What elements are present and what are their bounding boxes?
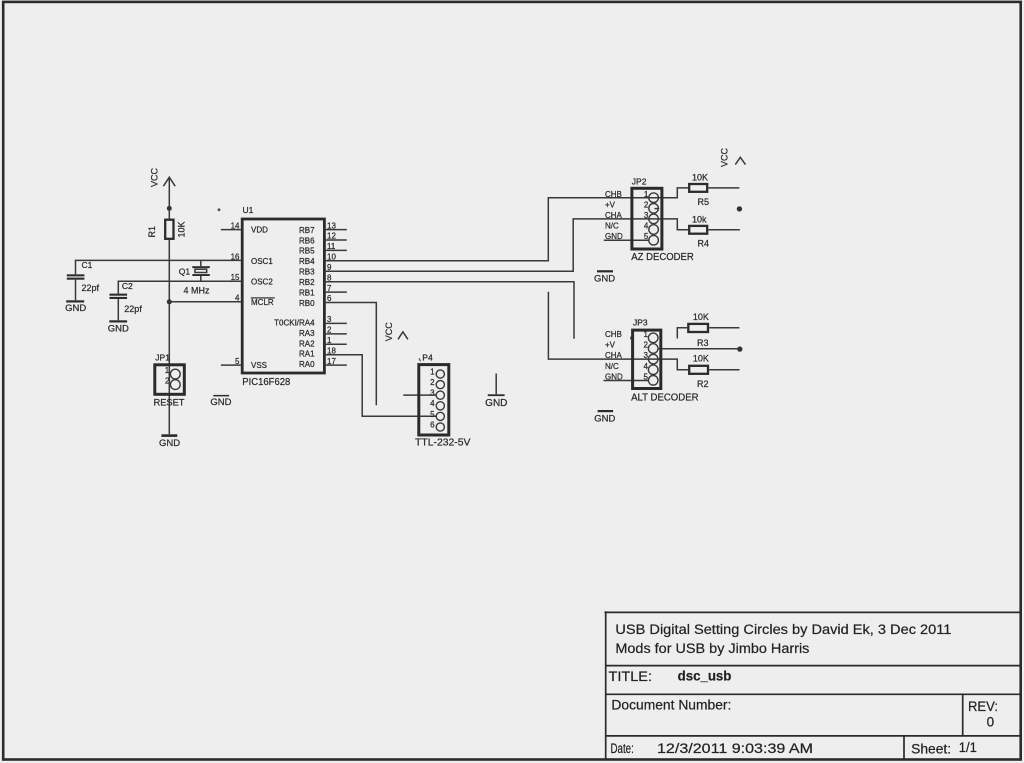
svg-text:6: 6: [430, 420, 435, 429]
svg-text:GND: GND: [210, 397, 231, 408]
junction dot +V ALT decoder: [737, 346, 742, 351]
JP3 pin 1 stub dot: [630, 337, 633, 340]
svg-text:GND: GND: [605, 372, 623, 381]
svg-text:4 MHz: 4 MHz: [184, 285, 211, 295]
JP2 pin circles: [649, 193, 659, 203]
svg-text:VCC: VCC: [150, 167, 160, 187]
svg-text:22pf: 22pf: [82, 283, 100, 293]
JP3 pin circles: [648, 333, 658, 343]
wire JP2 pin 5 GND: [604, 239, 649, 241]
ground symbol GND (C1): [65, 300, 86, 314]
power symbol VCC (top right): [720, 147, 746, 167]
svg-text:RA2: RA2: [299, 339, 315, 348]
svg-text:GND: GND: [605, 232, 623, 241]
wire RB0 (U1 pin 6) toward JP4 (dangling end): [324, 303, 376, 406]
U1 pin 5 VSS stub: [221, 364, 241, 366]
connector JP2 (AZ DECODER): [631, 176, 694, 263]
wire stub JP4 pin 3: [403, 394, 436, 396]
svg-text:VCC: VCC: [384, 322, 394, 342]
wire VCC to R1: [168, 179, 170, 219]
svg-text:1: 1: [430, 367, 435, 376]
svg-text:0: 0: [987, 714, 995, 729]
junction dot +V AZ decoder: [737, 206, 742, 211]
svg-text:10K: 10K: [693, 354, 709, 364]
svg-text:USB Digital Setting Circles by: USB Digital Setting Circles by David Ek,…: [615, 622, 951, 637]
svg-text:GND: GND: [594, 413, 615, 424]
svg-text:VDD: VDD: [251, 226, 268, 235]
svg-text:RB2: RB2: [299, 278, 315, 287]
svg-text:4: 4: [644, 362, 649, 371]
svg-text:GND: GND: [65, 303, 86, 314]
svg-text:10k: 10k: [692, 214, 707, 224]
MCLR overline: [251, 297, 275, 299]
svg-text:CHA: CHA: [605, 211, 623, 220]
svg-text:4: 4: [430, 399, 435, 408]
svg-text:1/1: 1/1: [959, 740, 977, 755]
svg-text:RB1: RB1: [299, 288, 315, 297]
svg-text:OSC1: OSC1: [251, 257, 273, 266]
svg-text:MCLR: MCLR: [251, 298, 274, 307]
capacitor C2: [110, 281, 143, 320]
svg-text:P4: P4: [422, 353, 433, 363]
capacitor C1: [67, 260, 100, 301]
svg-text:4: 4: [644, 222, 649, 231]
wire RA1 (U1 pin 18) to JP4 pin 5: [324, 355, 436, 417]
wire JP3 pin 5 GND: [604, 380, 649, 382]
U1 right pin numbers: [327, 221, 336, 365]
svg-text:R4: R4: [698, 238, 710, 248]
svg-text:Document Number:: Document Number:: [611, 698, 731, 713]
svg-text:CHA: CHA: [605, 351, 623, 360]
wire R1 to JP1 to GND (through MCLR node): [168, 240, 170, 434]
title block: [605, 611, 1021, 759]
svg-text:12: 12: [327, 232, 336, 241]
svg-text:1: 1: [644, 330, 649, 339]
JP2 pin numbers: [644, 190, 649, 241]
U1 right pin names: [274, 226, 315, 369]
svg-text:22pf: 22pf: [124, 304, 142, 314]
wire R3 right: [709, 327, 739, 329]
U1 right pin stubs: [324, 230, 346, 366]
svg-text:11: 11: [327, 242, 336, 251]
svg-text:TITLE:: TITLE:: [609, 669, 653, 684]
svg-text:10K: 10K: [177, 221, 187, 237]
svg-text:ALT DECODER: ALT DECODER: [631, 393, 699, 404]
ground symbol GND (C2): [108, 320, 129, 334]
svg-text:+V: +V: [605, 341, 616, 350]
ground symbol GND (VSS): [210, 395, 231, 408]
JP1 pin circles: [170, 369, 180, 379]
svg-text:14: 14: [231, 221, 240, 230]
wire JP3 pin 2 +V to junction: [658, 348, 740, 350]
svg-text:2: 2: [165, 376, 170, 385]
JP4 pin circles: [436, 370, 444, 378]
ground symbol GND (below JP3): [594, 410, 615, 424]
svg-text:5: 5: [430, 410, 435, 419]
resistor R3: [688, 312, 709, 348]
JP1 pin numbers: [165, 366, 170, 386]
wire CHA net to JP3 pin 3 and R2: [548, 292, 688, 370]
svg-text:2: 2: [327, 326, 332, 335]
svg-text:RA3: RA3: [299, 329, 315, 338]
crystal Q1: [179, 260, 210, 295]
svg-text:+V: +V: [605, 200, 616, 209]
svg-text:JP3: JP3: [633, 317, 648, 327]
svg-text:RA0: RA0: [299, 360, 315, 369]
svg-text:10K: 10K: [693, 312, 709, 322]
svg-text:R1: R1: [147, 226, 157, 238]
IC U1 PIC16F628: [242, 205, 324, 388]
U1 left pin numbers: [231, 221, 240, 365]
wire OSC2 net (C2 / Q1 / U1 pin 15): [118, 281, 241, 293]
power symbol VCC (near JP4): [384, 322, 408, 342]
junction dot VCC/R1 node: [167, 206, 172, 211]
JP2 net labels CHB +V CHA N/C GND: [605, 190, 623, 241]
svg-text:VSS: VSS: [251, 361, 267, 370]
svg-text:7: 7: [327, 284, 332, 293]
svg-text:JP1: JP1: [155, 353, 170, 363]
svg-text:3: 3: [644, 351, 649, 360]
svg-text:13: 13: [327, 221, 336, 230]
ground symbol GND (below JP2): [594, 270, 615, 284]
svg-text:5: 5: [644, 232, 649, 241]
resistor R1: [147, 220, 187, 239]
svg-text:R5: R5: [698, 197, 710, 207]
svg-text:3: 3: [327, 315, 332, 324]
U1 left pin names: [251, 226, 274, 371]
svg-text:12/3/2011 9:03:39 AM: 12/3/2011 9:03:39 AM: [657, 741, 813, 756]
svg-text:PIC16F628: PIC16F628: [242, 377, 290, 388]
power symbol VCC (top left): [150, 167, 176, 187]
wire R3 left (dangling): [677, 328, 687, 339]
JP4 pin numbers: [430, 367, 435, 429]
svg-text:RB7: RB7: [299, 226, 315, 235]
resistor R4: [689, 214, 709, 248]
svg-text:GND: GND: [594, 273, 615, 284]
svg-text:VCC: VCC: [720, 147, 730, 167]
svg-text:1: 1: [327, 336, 332, 345]
svg-text:RB3: RB3: [299, 268, 315, 277]
svg-text:T0CKI/RA4: T0CKI/RA4: [274, 318, 315, 327]
svg-text:dsc_usb: dsc_usb: [678, 668, 732, 683]
svg-text:17: 17: [327, 357, 336, 366]
wire R4 right: [708, 229, 740, 231]
svg-text:N/C: N/C: [605, 222, 619, 231]
svg-text:CHB: CHB: [605, 190, 622, 199]
connector JP4 (TTL-232-5V): [415, 353, 471, 449]
wire JP2 pin 2 tick: [655, 208, 660, 210]
svg-text:RB6: RB6: [299, 236, 315, 245]
svg-text:C1: C1: [82, 260, 93, 270]
connector JP3 (ALT DECODER): [631, 317, 699, 403]
svg-text:16: 16: [231, 253, 240, 262]
U1 pin 14 VDD stub: [221, 229, 241, 231]
svg-text:RB0: RB0: [299, 299, 315, 308]
svg-text:R2: R2: [697, 379, 709, 389]
svg-text:5: 5: [235, 357, 240, 366]
svg-text:RESET: RESET: [154, 397, 186, 407]
svg-text:JP2: JP2: [632, 176, 647, 186]
svg-text:2: 2: [430, 378, 435, 387]
svg-text:Q1: Q1: [179, 266, 191, 276]
svg-text:OSC2: OSC2: [251, 278, 273, 287]
svg-text:N/C: N/C: [605, 362, 619, 371]
svg-text:5: 5: [644, 372, 649, 381]
JP3 pin numbers: [644, 330, 649, 381]
wire R2 right: [709, 369, 739, 371]
connector JP1 (RESET): [154, 353, 186, 408]
ground symbol GND (right of JP4): [485, 374, 507, 409]
svg-text:RB4: RB4: [299, 257, 315, 266]
wire RB2 (U1 pin 8) toward JP3 (dangling end): [324, 282, 574, 339]
svg-text:U1: U1: [243, 205, 254, 215]
svg-text:Sheet:: Sheet:: [911, 742, 951, 757]
svg-text:GND: GND: [108, 323, 129, 334]
svg-text:RA1: RA1: [299, 350, 315, 359]
wire OSC1 net (C1 / Q1 / U1 pin 16): [76, 260, 241, 274]
svg-text:10K: 10K: [692, 172, 708, 182]
junction dot MCLR node: [167, 299, 172, 304]
svg-text:GND: GND: [159, 438, 180, 449]
svg-text:1: 1: [644, 190, 649, 199]
svg-text:AZ DECODER: AZ DECODER: [631, 252, 694, 263]
wire MCLR node to U1 pin 4: [169, 301, 241, 303]
svg-text:GND: GND: [485, 398, 507, 409]
svg-text:2: 2: [644, 341, 649, 350]
resistor R2: [689, 354, 709, 389]
svg-text:REV:: REV:: [968, 699, 998, 714]
svg-text:CHB: CHB: [605, 330, 622, 339]
svg-text:4: 4: [235, 294, 240, 303]
wire RB3 (U1 pin 9) to JP2 pin 3 CHA and on to R4: [324, 219, 688, 271]
svg-text:3: 3: [644, 211, 649, 220]
wire R5 right: [708, 187, 739, 189]
ground symbol GND (JP1): [159, 434, 180, 449]
JP3 net labels CHB +V CHA N/C GND: [605, 330, 623, 381]
svg-text:Mods for USB by Jimbo Harris: Mods for USB by Jimbo Harris: [615, 641, 809, 656]
svg-text:3: 3: [430, 389, 435, 398]
wire JP2 pin 1 to R5: [648, 188, 688, 198]
svg-text:15: 15: [231, 273, 240, 282]
svg-text:C2: C2: [122, 281, 133, 291]
JP4 pin 4 edge dot: [418, 405, 420, 407]
svg-text:Date:: Date:: [611, 741, 634, 756]
wire RB4 (U1 pin 10) to JP2 pin 1 CHB: [324, 198, 649, 261]
resistor R5: [689, 172, 709, 207]
svg-text:R3: R3: [697, 338, 709, 348]
stray dot artifact: [218, 208, 221, 211]
svg-text:TTL-232-5V: TTL-232-5V: [415, 438, 471, 449]
svg-text:2: 2: [644, 200, 649, 209]
svg-text:RB5: RB5: [299, 247, 315, 256]
svg-text:1: 1: [165, 366, 170, 375]
